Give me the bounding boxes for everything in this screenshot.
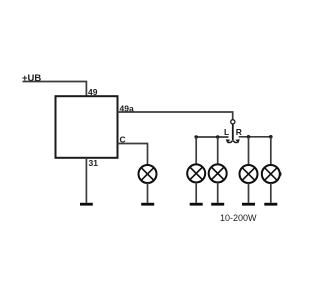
left lamp bus wire [196, 136, 229, 138]
svg-text:R: R [236, 127, 242, 137]
svg-text:L: L [224, 127, 229, 137]
wire lamp R1 to ground [248, 183, 250, 203]
lamp R2 [262, 165, 280, 183]
junction dot lamp R2 [269, 135, 273, 139]
junction dot lamp R1 [247, 135, 251, 139]
lamp R1 [240, 165, 258, 183]
svg-text:49: 49 [88, 87, 98, 97]
svg-text:31: 31 [89, 158, 99, 168]
svg-text:10-200W: 10-200W [220, 213, 257, 223]
printing nub on lamp R2 right edge [280, 171, 282, 177]
wire bus to lamp R2 [270, 137, 272, 165]
junction dot lamp L1 [194, 135, 198, 139]
wire bus to lamp L2 [217, 137, 219, 164]
wire lamp L1 to ground [195, 182, 197, 202]
switch arrow to L contact [228, 141, 232, 143]
wire lamp L2 to ground [217, 182, 219, 202]
svg-text:49a: 49a [120, 104, 134, 114]
ground lamp R1 [242, 203, 255, 206]
switch arrowhead R [235, 139, 239, 143]
right lamp bus wire [239, 136, 272, 138]
ground lamp R2 [264, 203, 277, 206]
wire +UB to pin 49 [23, 82, 87, 97]
wire bus to lamp L1 [195, 137, 197, 164]
wire pin 31 to ground [85, 158, 87, 203]
switch arrowhead L [226, 139, 230, 143]
lamp L2 [209, 164, 227, 182]
ground lamp L2 [211, 203, 224, 206]
turn-signal switch S pivot [231, 120, 235, 124]
svg-text:+UB: +UB [22, 73, 41, 84]
switch arrow to R contact [233, 141, 237, 143]
ground lamp L1 [190, 203, 203, 206]
indicator lamp C [139, 165, 157, 183]
ground pin 31 [80, 203, 93, 206]
lamp L1 [187, 164, 205, 182]
ground lamp C [141, 203, 154, 206]
wire pin 49a to switch [118, 112, 233, 120]
wire lamp R2 to ground [270, 183, 272, 203]
switch wiper [232, 124, 234, 141]
junction dot lamp L2 [216, 135, 220, 139]
flasher relay box [56, 96, 118, 158]
wire bus to lamp R1 [248, 137, 250, 165]
wire lamp C to ground [147, 183, 149, 203]
wire pin C to indicator lamp [118, 144, 148, 166]
